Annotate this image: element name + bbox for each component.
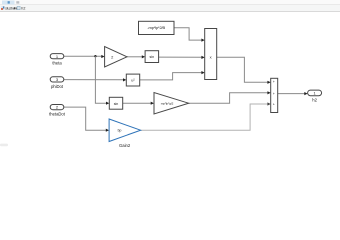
inport 2 (50, 105, 64, 110)
svg-text:thetaDot: thetaDot (49, 112, 66, 117)
svg-text:theta: theta (52, 61, 62, 66)
outport 1 (308, 90, 322, 96)
label phiDot (51, 84, 64, 89)
gain block Gain2 bp (selected blue) (109, 119, 141, 142)
trig block sin (145, 51, 159, 63)
svg-text:+: + (273, 103, 275, 107)
math function block u^2 (126, 74, 139, 86)
wire Gain to Trigonometric Function (127, 55, 145, 58)
svg-text:+: + (273, 80, 275, 84)
breadcrumb text sluzbeni (5, 7, 17, 11)
wire phiDot to Math Function (64, 78, 127, 81)
wire Math Function to Product (140, 71, 205, 80)
wire Trigonometric Function1 to Gain1 (123, 102, 154, 105)
svg-text:x: x (210, 55, 212, 60)
label thetaDot (49, 112, 66, 117)
gain block mp*lp*g/2 (154, 93, 189, 115)
active tab highlight (2, 1, 15, 5)
breadcrumb subsystem icon (17, 6, 21, 10)
svg-text:sin: sin (114, 102, 119, 106)
breadcrumb separator (14, 7, 16, 10)
breadcrumb text h2 (21, 7, 25, 11)
tab bar (0, 0, 340, 5)
wire Trigonometric Function to Product (159, 56, 205, 59)
svg-text:h2: h2 (312, 97, 317, 102)
svg-text:-mp*lp*2/B: -mp*lp*2/B (147, 25, 165, 30)
wire Gain1 to Add (189, 91, 271, 103)
breadcrumb model icon (1, 6, 4, 10)
wire theta to Gain (64, 55, 105, 58)
svg-text:bp: bp (118, 129, 122, 133)
wire Add to outport h2 (278, 92, 308, 95)
wire thetaDot to Gain2 (64, 107, 109, 132)
label h2 (312, 97, 317, 102)
node theta branch junction (94, 55, 96, 57)
label Gain2 (119, 143, 131, 148)
svg-text:h2: h2 (21, 7, 25, 11)
svg-text:Gain2: Gain2 (119, 143, 131, 148)
bottom-left toolbar fragment (0, 144, 8, 147)
svg-text:mp*lp*g/2: mp*lp*g/2 (161, 102, 174, 106)
breadcrumb bar (0, 5, 340, 12)
wire Gain2 to Add (141, 102, 271, 130)
svg-text:sluzbeni: sluzbeni (5, 7, 17, 11)
svg-text:phiDot: phiDot (51, 84, 64, 89)
svg-text:sin: sin (149, 55, 154, 59)
label theta (52, 61, 62, 66)
gain block value 2 (105, 47, 127, 68)
wire Constant to Product (174, 28, 205, 42)
tab bar icon (16, 1, 19, 3)
inport 3 (50, 77, 64, 82)
add block (271, 78, 278, 112)
wire Product to Add (217, 57, 271, 84)
constant block mp*lp*2/B (139, 21, 175, 34)
product block x (205, 29, 217, 80)
inport 1 (50, 54, 64, 59)
wire theta branch down to Trigonometric Function1 (95, 56, 109, 105)
trig block sin 2 (109, 97, 122, 109)
svg-text:+: + (273, 92, 275, 96)
